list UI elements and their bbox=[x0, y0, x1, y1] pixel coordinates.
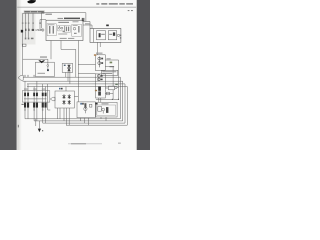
main vertical feed wire left bbox=[22, 33, 24, 76]
wire to relay box bbox=[23, 58, 48, 60]
connector pins row bbox=[22, 22, 41, 24]
wire G2 out bbox=[105, 87, 108, 89]
diode pair in relay box bbox=[38, 60, 45, 63]
wire G1 left feed bbox=[78, 63, 95, 65]
inline connectors below coils bbox=[24, 109, 43, 110]
ECU main unit U1 bbox=[46, 20, 83, 40]
wire harness verticals from J1 bbox=[23, 13, 33, 29]
stub label J5 bbox=[110, 66, 115, 67]
inline connector ticks on drops bbox=[24, 75, 35, 76]
label above N1 (blue tag) bbox=[59, 88, 61, 90]
sensor symbol right of K2 bbox=[117, 34, 119, 36]
transistor pair in block B bbox=[58, 27, 60, 29]
G1 title text bbox=[96, 53, 103, 54]
driver in block C bbox=[73, 27, 76, 30]
label 1G bbox=[22, 104, 24, 105]
U1 inner block B bbox=[58, 26, 64, 31]
label block bbox=[101, 70, 118, 75]
U1 title text bbox=[58, 18, 64, 19]
bus line 3 bbox=[27, 83, 125, 85]
labels in E1 bbox=[102, 102, 109, 105]
igniter box G1 bbox=[96, 55, 106, 71]
sensor box B1 (bottom middle) bbox=[77, 102, 95, 118]
injectors (4 dark crosses) bbox=[63, 94, 71, 104]
G1 coils bbox=[98, 56, 101, 67]
U1 mid text row bbox=[58, 33, 67, 36]
page-top ink blob bbox=[27, 0, 36, 3]
long vertical feed wire center bbox=[77, 41, 79, 102]
E1 inner frame bbox=[97, 105, 116, 115]
wire above E1 bbox=[96, 98, 119, 100]
B1 aux element bbox=[90, 104, 92, 107]
bottom wrap line 4 bbox=[66, 124, 127, 126]
G1 orange tag bbox=[94, 54, 96, 56]
dark element bbox=[47, 69, 49, 71]
bottom wrap line 2 bbox=[34, 120, 123, 122]
arrow connector into N1 bbox=[50, 97, 55, 101]
bus right wrap verticals bbox=[120, 77, 127, 125]
relay module K1 bbox=[97, 31, 106, 40]
header text right bbox=[96, 3, 133, 4]
junction connector box K (top right) bbox=[90, 29, 121, 43]
wire G2 left feed bbox=[78, 73, 95, 75]
block A pin text bbox=[48, 23, 55, 26]
feed wire right of coils bbox=[48, 84, 51, 110]
G2 coils upper bbox=[97, 74, 100, 81]
oscillator symbol bbox=[42, 29, 44, 31]
G2 pickup dark column bbox=[95, 86, 101, 95]
sensor row below divider bbox=[105, 90, 113, 100]
relay box inner text bbox=[38, 73, 46, 74]
svg-text:4.5MHz: 4.5MHz bbox=[35, 30, 44, 32]
divider component bbox=[108, 86, 114, 90]
bottom wrap line 3 bbox=[43, 122, 125, 124]
ground drop wires bbox=[36, 119, 40, 129]
label near wire bbox=[85, 23, 91, 24]
wire U1 to connector box lower bbox=[83, 25, 92, 29]
right scan gutter bar bbox=[137, 0, 150, 150]
drops from bus to coils bbox=[25, 81, 46, 92]
solenoid valves bbox=[68, 64, 71, 72]
solenoid box V1 (mid-right) bbox=[62, 63, 72, 72]
U1 inner block A bbox=[47, 24, 56, 36]
ignition coil group 1 bbox=[24, 93, 29, 108]
page background bbox=[0, 0, 150, 150]
wire to oscillator bbox=[40, 20, 46, 29]
U1 inner block C bbox=[72, 25, 82, 37]
ground symbol bbox=[38, 129, 41, 133]
oscillator feed over-route wire bbox=[42, 13, 86, 29]
U1 inner block B2 bbox=[65, 26, 70, 33]
ignition coil group 2 bbox=[33, 93, 38, 108]
harness connector arrow left bbox=[18, 75, 23, 80]
green tag above bbox=[115, 84, 118, 86]
resistor bars in block A bbox=[49, 26, 54, 34]
connector block P1 (filled) bbox=[21, 30, 23, 33]
output box E1 (bottom right) bbox=[96, 102, 117, 117]
wire G1 out upper bbox=[105, 60, 118, 99]
bottom wrap line 1 bbox=[25, 118, 120, 120]
bus line 2 bbox=[23, 80, 123, 82]
bus line 1 bbox=[23, 76, 120, 78]
components in E1 bbox=[98, 106, 102, 111]
margin figure mark bbox=[18, 125, 19, 128]
junction dot 2 bbox=[112, 99, 113, 100]
wire top rail under title bbox=[23, 12, 45, 14]
wires box K down to igniter bbox=[97, 42, 100, 54]
component row symbols bbox=[25, 29, 34, 31]
U1 top pin text row bbox=[58, 21, 78, 23]
relay module K2 bbox=[108, 31, 116, 40]
injector box N1 (bottom-left of center) bbox=[55, 91, 74, 108]
drop labels bbox=[24, 88, 45, 91]
group tie line bbox=[24, 98, 47, 100]
wire N1 to center vertical bbox=[74, 96, 78, 98]
U1 corner text bbox=[45, 14, 52, 15]
connector block J1 title strip bbox=[24, 10, 45, 13]
wires below V1 bbox=[66, 72, 70, 84]
wires below B1 bbox=[81, 118, 89, 126]
footer rule bbox=[68, 142, 102, 145]
left scan gutter bar bbox=[0, 0, 16, 150]
U1 bottom label row bbox=[60, 37, 75, 40]
junction dot bbox=[118, 99, 119, 100]
ground label dot bbox=[42, 130, 43, 131]
label 20 (green tag) bbox=[110, 62, 113, 64]
inline switch S1 bbox=[22, 44, 26, 46]
LED indicator bbox=[47, 65, 49, 67]
wires below N1 bbox=[58, 108, 70, 125]
bus line 4 bbox=[27, 86, 127, 88]
header page number marks bbox=[128, 10, 130, 11]
B1 blue tag bbox=[80, 103, 82, 105]
ignition coil group 3 bbox=[42, 93, 47, 108]
label above box K bbox=[106, 25, 109, 27]
routed wire U1 bottom bbox=[61, 41, 76, 78]
U1 output arrows bbox=[82, 18, 85, 21]
E1 dark tag bbox=[95, 103, 97, 105]
E1 bottom drops bbox=[101, 117, 106, 121]
shading wash in connector area bbox=[20, 13, 36, 45]
relay box R (mid-left) bbox=[35, 62, 54, 76]
B1 sensor column bbox=[84, 103, 86, 108]
header rule bbox=[17, 6, 136, 9]
second pin row bbox=[26, 31, 29, 37]
wire U1 to connector box upper bbox=[83, 22, 90, 29]
coil group enclosure box bbox=[22, 91, 50, 102]
page shading near left gutter bbox=[17, 0, 19, 150]
U1 extra marks bbox=[59, 26, 77, 34]
wire G1 out lower bbox=[105, 67, 113, 87]
wire U1 to relay box bbox=[50, 41, 52, 60]
footer page mark bbox=[118, 143, 121, 144]
wire N1 top to bus bbox=[65, 87, 67, 92]
igniter box G2 bbox=[96, 74, 106, 98]
